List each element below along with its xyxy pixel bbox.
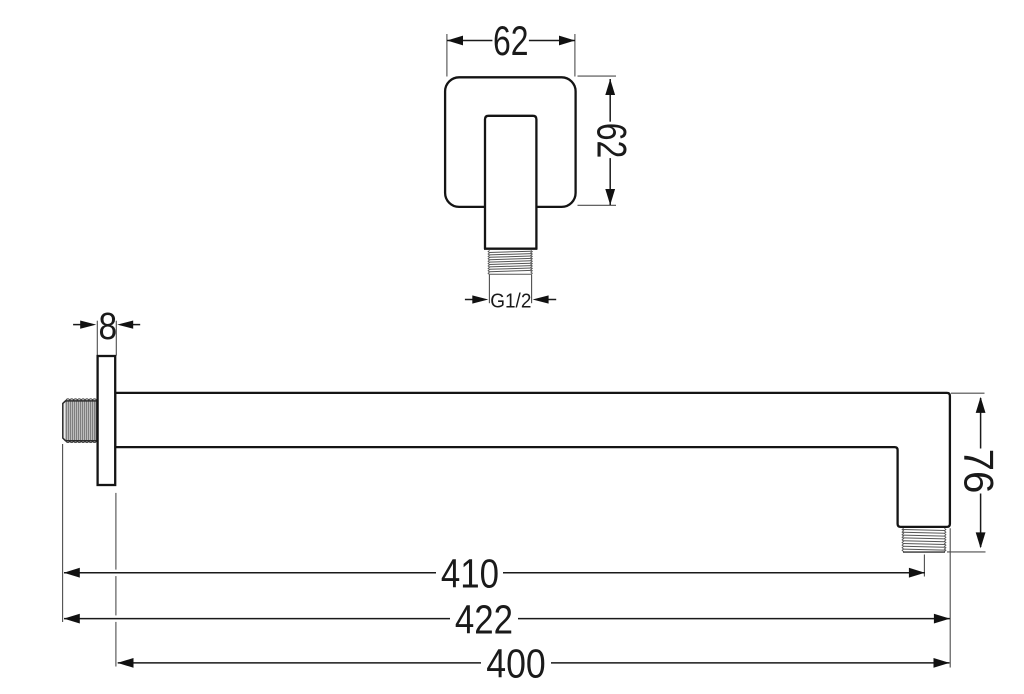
svg-text:400: 400 [486,641,545,687]
svg-text:G1/2: G1/2 [490,290,531,313]
svg-text:62: 62 [493,17,529,64]
svg-text:62: 62 [588,123,635,159]
svg-text:76: 76 [955,449,1002,494]
svg-text:8: 8 [99,305,118,347]
svg-text:422: 422 [455,598,513,643]
svg-text:410: 410 [441,552,499,597]
